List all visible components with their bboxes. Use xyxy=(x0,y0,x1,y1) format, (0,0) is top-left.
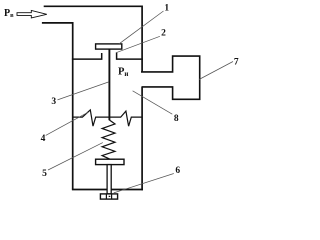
node output channel: neck to block 7 xyxy=(141,56,200,99)
wire: supply channel upper wall + vessel right wall upper xyxy=(44,6,142,72)
svg-text:3: 3 xyxy=(51,97,56,107)
wire: supply channel lower wall + vessel left wall xyxy=(42,23,73,190)
leader line 4 xyxy=(46,112,88,135)
foot nut 6 xyxy=(100,194,117,199)
svg-text:8: 8 xyxy=(174,114,179,124)
wire: vessel right wall lower xyxy=(141,87,143,190)
nozzle seat 2 (right half) xyxy=(117,52,143,59)
ground-side nozzle seat 2 (left half) xyxy=(72,53,102,59)
leader line 1 xyxy=(119,11,164,44)
svg-text:2: 2 xyxy=(161,29,166,39)
svg-text:6: 6 xyxy=(175,166,180,176)
wire: vessel bottom wall xyxy=(72,189,143,191)
supply arrow Pв xyxy=(17,10,47,18)
flapper plate 1 xyxy=(96,44,122,49)
leader line 8 xyxy=(133,91,173,114)
svg-text:4: 4 xyxy=(41,134,46,144)
leader line 5 xyxy=(48,143,103,170)
svg-text:5: 5 xyxy=(42,169,47,179)
leader line 7 xyxy=(199,62,233,80)
leader line 6 xyxy=(114,174,174,193)
leader line 2 xyxy=(117,36,160,52)
leader line 3 xyxy=(58,82,109,100)
beam top plate xyxy=(96,159,124,164)
spring 5 xyxy=(102,120,115,159)
membrane 4 with break symbols xyxy=(73,110,143,126)
foot nut inner divisions xyxy=(106,194,111,199)
svg-text:7: 7 xyxy=(234,58,239,68)
svg-text:1: 1 xyxy=(164,3,169,13)
stem (rod) 3 xyxy=(108,49,110,120)
beam web (through bottom wall) xyxy=(107,165,111,194)
